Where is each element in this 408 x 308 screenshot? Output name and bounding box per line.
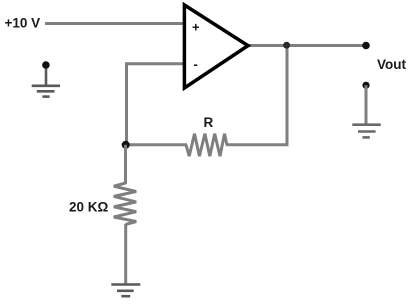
wire 20K resistor to ground: [124, 224, 127, 285]
ground GND3 bottom: [111, 285, 140, 297]
wire feedback vertical branch: [286, 46, 289, 145]
terminal Vout dot: [362, 42, 370, 50]
svg-text:+10 V: +10 V: [5, 16, 41, 31]
junction output node dot: [283, 42, 290, 49]
wire inverting input feedback loop: [127, 64, 187, 145]
wire non-inverting input: [45, 22, 186, 25]
svg-text:Vout: Vout: [377, 57, 406, 72]
ground GND1 left: [32, 61, 60, 96]
op-amp U1: [184, 5, 248, 88]
svg-text:20 KΩ: 20 KΩ: [69, 200, 109, 215]
svg-text:+: +: [192, 20, 200, 35]
svg-text:-: -: [194, 57, 198, 72]
wire output: [246, 44, 366, 47]
node feedback junction dot: [122, 141, 130, 149]
svg-text:R: R: [204, 115, 214, 130]
wire node to 20K resistor: [124, 145, 127, 184]
resistor 20 KOhm: [114, 183, 136, 225]
wire node to resistor R: [126, 143, 187, 146]
wire resistor R to output branch: [226, 143, 289, 146]
resistor R: [186, 134, 227, 157]
ground GND2 right: [352, 82, 381, 138]
